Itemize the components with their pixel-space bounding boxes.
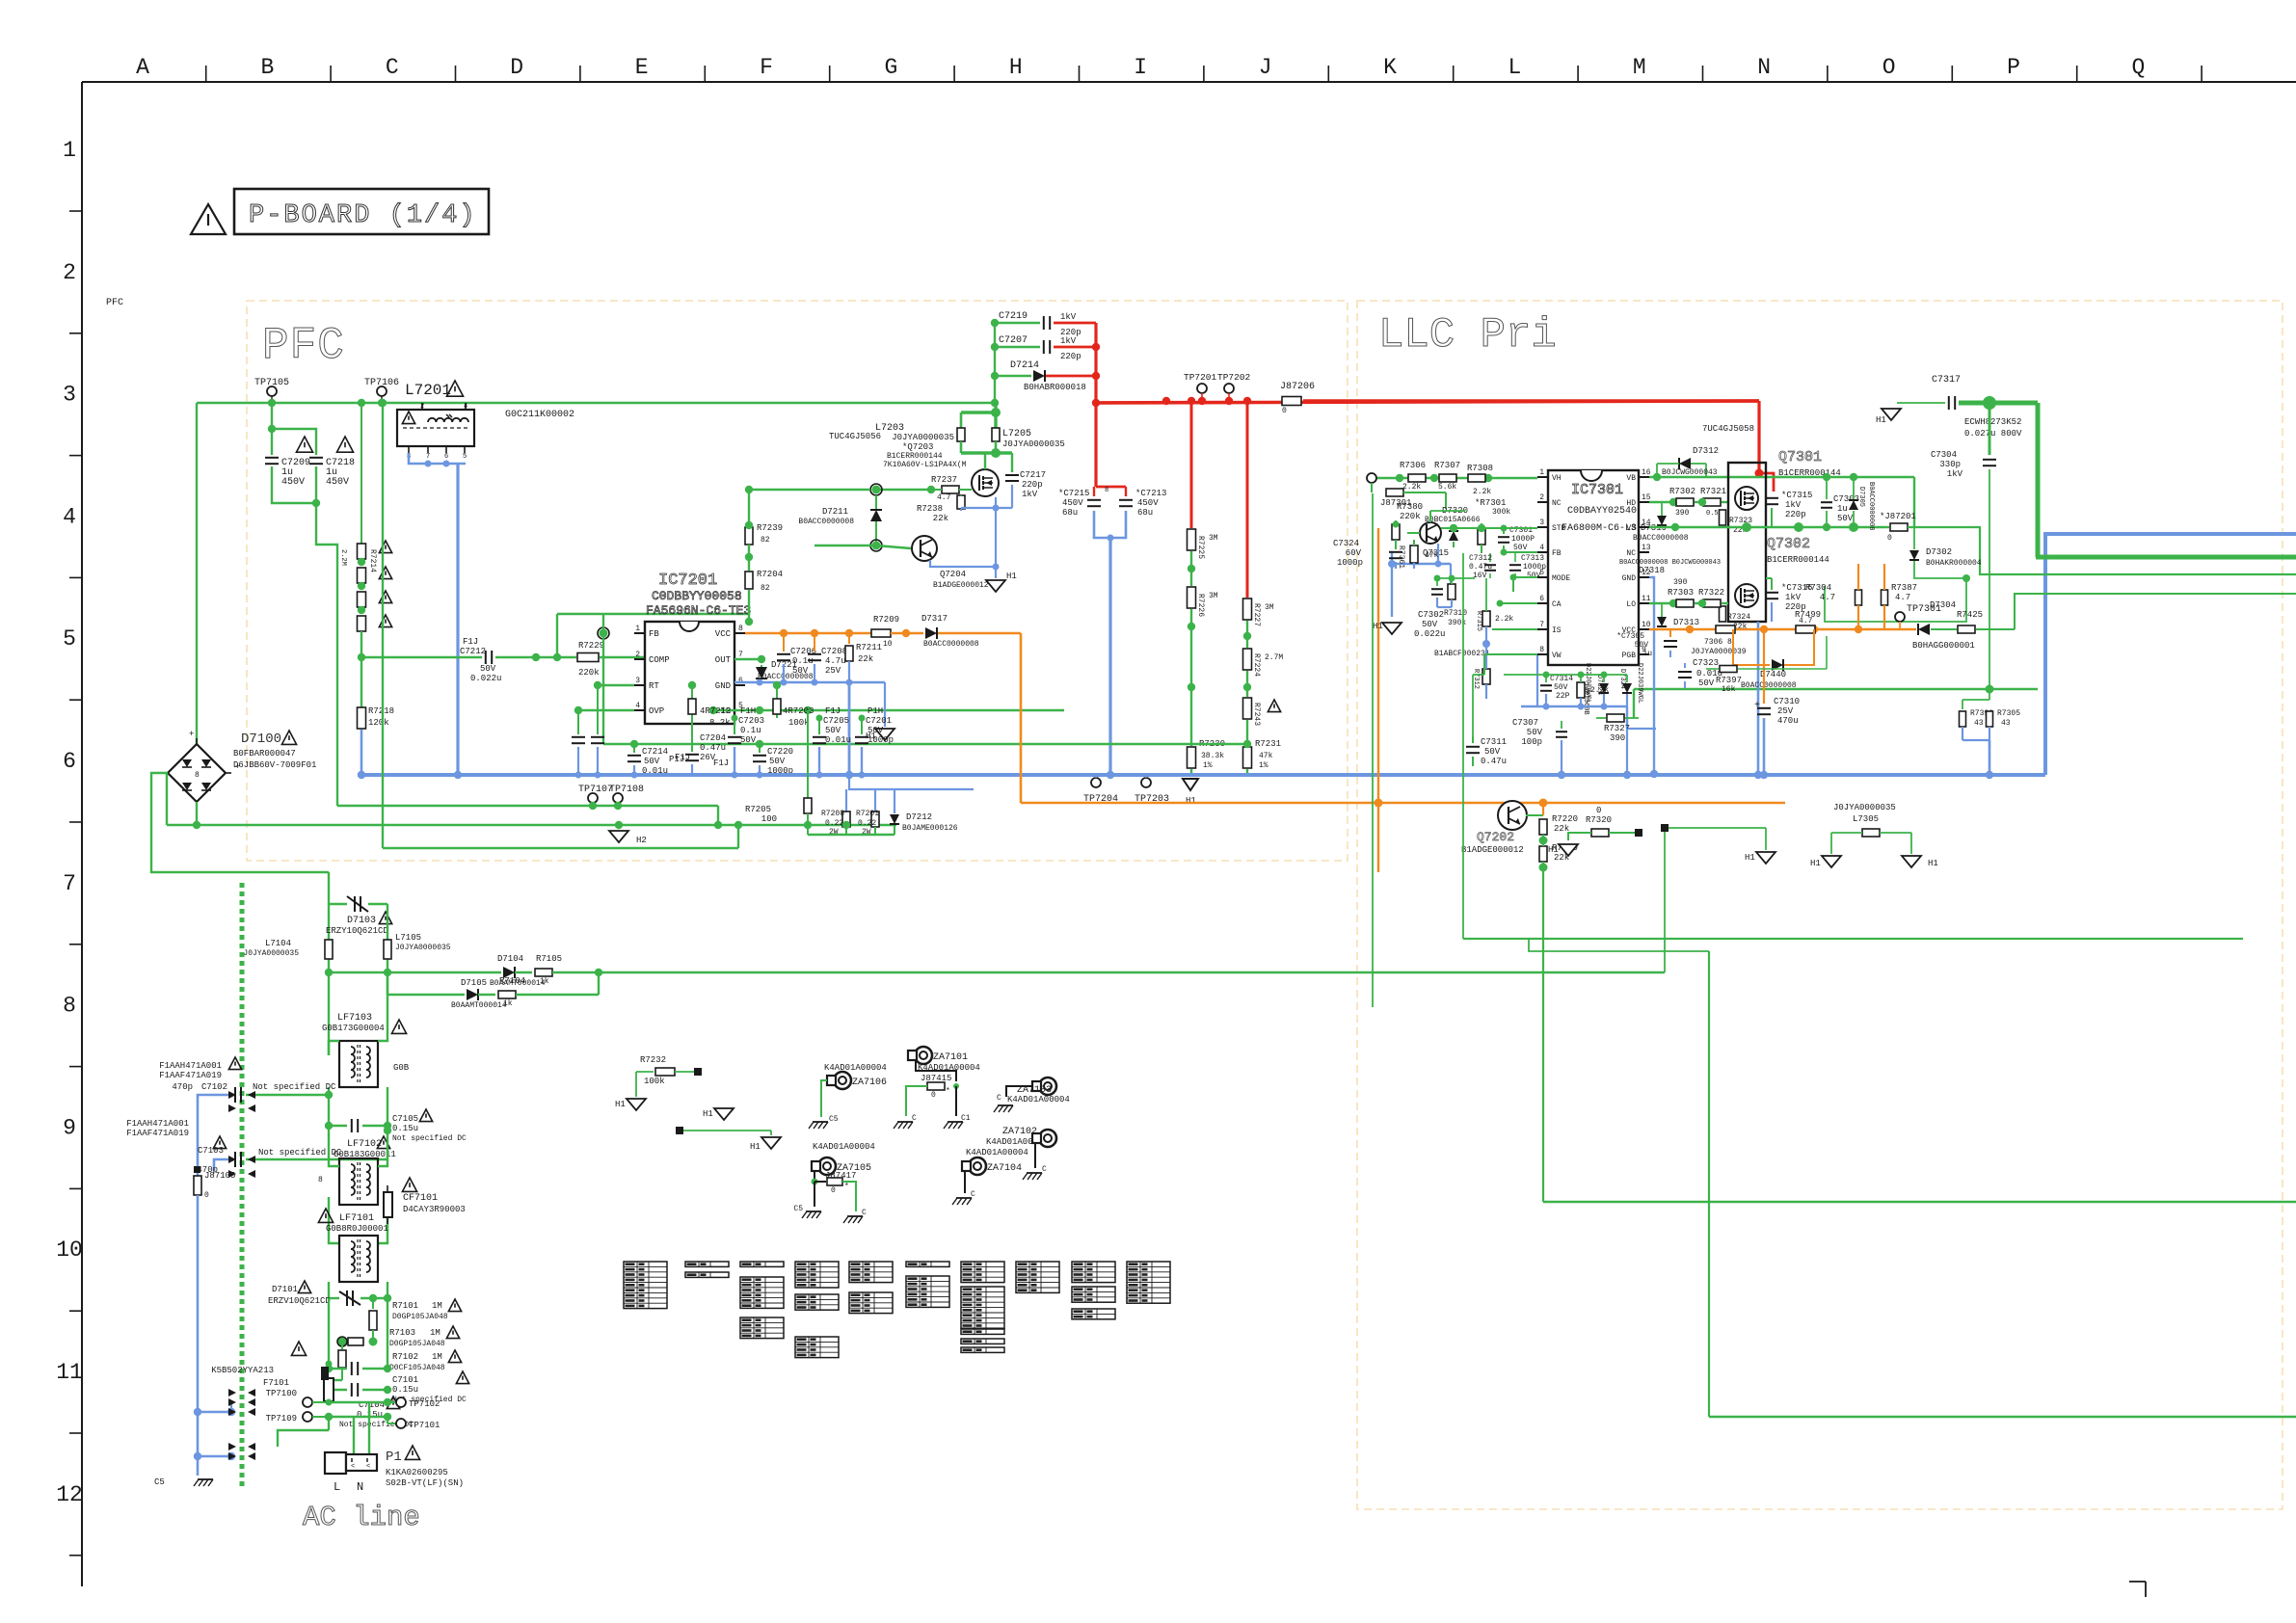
PFC region dashed box <box>247 301 1348 861</box>
svg-text:4: 4 <box>635 702 640 710</box>
svg-text:R7324: R7324 <box>1727 613 1750 622</box>
svg-text:R7227: R7227 <box>1252 603 1261 626</box>
svg-text:D7323: D7323 <box>1595 675 1603 695</box>
svg-text:AC line: AC line <box>303 1502 420 1533</box>
svg-text:N: N <box>1757 55 1771 80</box>
wire <box>329 1041 339 1055</box>
transistor Q7315 <box>1420 522 1441 544</box>
capacitor C7105 <box>329 1125 347 1127</box>
wire <box>808 834 894 836</box>
wire <box>849 775 974 789</box>
capacitor C7324 <box>1389 551 1402 553</box>
svg-text:D: D <box>510 55 523 80</box>
svg-text:D7101: D7101 <box>272 1285 298 1294</box>
svg-text:C5: C5 <box>154 1477 165 1487</box>
resistor R7310 <box>1448 584 1455 599</box>
wire <box>1504 674 1627 676</box>
svg-text:ZA7104: ZA7104 <box>987 1163 1022 1174</box>
ground H1 <box>986 580 1005 592</box>
resistor R7312 <box>1482 669 1490 684</box>
svg-text:C7219: C7219 <box>999 311 1028 322</box>
wire <box>2015 594 2296 629</box>
svg-text:12: 12 <box>56 1482 83 1507</box>
svg-text:0.47u: 0.47u <box>700 743 726 753</box>
svg-text:TUC4GJ5056: TUC4GJ5056 <box>829 432 881 441</box>
diode D7104 <box>503 967 515 978</box>
capacitor C7215 <box>1096 486 1126 489</box>
svg-text:C7314: C7314 <box>1550 675 1573 683</box>
diode D7317 <box>891 632 923 635</box>
svg-text:0.15u: 0.15u <box>392 1124 418 1133</box>
svg-text:J0JYA0000035: J0JYA0000035 <box>892 433 954 442</box>
svg-text:R7322: R7322 <box>1698 588 1724 598</box>
wire <box>1757 401 1760 473</box>
ground H1 <box>1822 856 1841 867</box>
svg-text:MODE: MODE <box>1552 574 1570 583</box>
svg-text:CF7101: CF7101 <box>403 1193 438 1204</box>
svg-text:H1: H1 <box>703 1109 713 1119</box>
svg-text:L7104: L7104 <box>265 939 291 948</box>
resistor R7230 <box>1188 747 1196 768</box>
svg-text:4.7u: 4.7u <box>825 656 846 666</box>
wire <box>876 489 931 491</box>
svg-text:F1H: F1H <box>740 706 756 716</box>
capacitor C7304 <box>1989 403 1991 455</box>
svg-text:B0JCWG000043: B0JCWG000043 <box>1662 468 1718 477</box>
svg-text:0.022u: 0.022u <box>1414 629 1445 639</box>
capacitor C7212 <box>485 651 487 664</box>
svg-text:60V: 60V <box>1346 548 1362 558</box>
wire <box>1054 346 1096 349</box>
svg-text:C: C <box>386 55 399 80</box>
diode D7305 <box>1849 500 1858 510</box>
svg-text:2.2M: 2.2M <box>339 549 347 566</box>
svg-text:NC: NC <box>1552 499 1562 508</box>
svg-text:7: 7 <box>1539 621 1544 629</box>
svg-text:3: 3 <box>63 383 76 408</box>
resistor R7204 <box>748 545 750 571</box>
border frame <box>82 81 2296 83</box>
resistor R7397 <box>1720 666 1737 673</box>
wire <box>1561 750 1562 775</box>
svg-text:0.47u: 0.47u <box>1481 757 1507 766</box>
svg-text:4: 4 <box>464 403 467 411</box>
svg-text:1: 1 <box>1539 468 1544 477</box>
resistor R7225 <box>1190 401 1193 528</box>
svg-text:TP7108: TP7108 <box>609 785 644 795</box>
diode D7320 <box>1449 531 1458 541</box>
svg-text:C7323: C7323 <box>1693 658 1719 668</box>
svg-text:0: 0 <box>1282 407 1287 415</box>
svg-text:F1AAH471A001: F1AAH471A001 <box>159 1061 222 1071</box>
svg-text:C0DBBYY00058: C0DBBYY00058 <box>652 589 742 603</box>
wire <box>1709 1416 2296 1418</box>
resistor R7308 <box>1468 474 1485 482</box>
wire <box>228 1091 236 1099</box>
svg-text:B0HABR000018: B0HABR000018 <box>1024 383 1086 392</box>
wire <box>1513 576 1537 578</box>
svg-text:B0FBAR000047: B0FBAR000047 <box>233 749 296 758</box>
capacitor C7104 <box>329 1389 347 1391</box>
wire <box>748 490 750 525</box>
svg-text:G0C211K00002: G0C211K00002 <box>505 410 574 420</box>
svg-text:D7103: D7103 <box>347 916 376 926</box>
svg-text:390: 390 <box>1610 733 1625 743</box>
op-amp IC7301 <box>1548 470 1639 665</box>
svg-text:R7102: R7102 <box>392 1352 418 1362</box>
svg-text:H1: H1 <box>1876 415 1886 425</box>
capacitor C7206 <box>783 633 785 652</box>
svg-text:R7105: R7105 <box>536 954 562 964</box>
svg-text:D22J039WGL: D22J039WGL <box>1636 663 1643 704</box>
table parts list <box>624 1262 667 1309</box>
svg-text:J0JYA0000035: J0JYA0000035 <box>1002 439 1065 449</box>
wire <box>713 709 1064 711</box>
capacitor C7103 <box>234 1152 236 1167</box>
svg-text:4R7203: 4R7203 <box>783 706 814 716</box>
svg-text:C: C <box>912 1114 917 1123</box>
svg-text:4.7: 4.7 <box>1799 617 1813 625</box>
svg-text:TP7201: TP7201 <box>1184 372 1217 383</box>
svg-text:C: C <box>997 1094 1001 1103</box>
svg-text:*J87201: *J87201 <box>1880 512 1916 521</box>
transformer LF7101 <box>318 1209 333 1222</box>
svg-text:R7201: R7201 <box>856 810 879 818</box>
wire <box>1649 577 1654 774</box>
wire <box>1500 602 1537 604</box>
svg-text:P: P <box>2007 55 2020 80</box>
resistor R7315 <box>1482 611 1490 626</box>
wire <box>1372 493 1374 1007</box>
connector P1 <box>325 1452 346 1474</box>
svg-text:43: 43 <box>2001 719 2011 728</box>
svg-text:R7320: R7320 <box>1586 815 1612 825</box>
svg-text:*C7315: *C7315 <box>1781 491 1812 500</box>
capacitor C7201 <box>861 718 863 734</box>
svg-text:B0HAKR000004: B0HAKR000004 <box>1926 559 1982 568</box>
svg-text:B1ADGE000012: B1ADGE000012 <box>933 581 989 590</box>
svg-text:6: 6 <box>444 453 448 461</box>
svg-text:L7205: L7205 <box>1002 429 1031 439</box>
diode D7105 <box>387 994 465 996</box>
resistor R7104 <box>478 994 495 996</box>
svg-text:6: 6 <box>1539 595 1544 603</box>
svg-text:R7103: R7103 <box>389 1328 415 1338</box>
svg-text:R7104: R7104 <box>499 976 525 986</box>
svg-text:100k: 100k <box>788 718 810 728</box>
svg-text:C7302: C7302 <box>1418 610 1444 620</box>
svg-text:IC7201: IC7201 <box>658 572 717 590</box>
resistor R7224 <box>1243 649 1252 670</box>
svg-text:*C7213: *C7213 <box>1135 489 1166 498</box>
node TP7101 <box>387 1417 388 1423</box>
svg-text:D6JBB60V-7009F01: D6JBB60V-7009F01 <box>233 760 316 770</box>
svg-text:R7101: R7101 <box>392 1301 418 1311</box>
svg-text:2: 2 <box>420 403 424 411</box>
svg-text:K4AD01A00004: K4AD01A00004 <box>813 1142 875 1152</box>
svg-text:C7304: C7304 <box>1931 450 1957 460</box>
wire <box>1429 511 1431 522</box>
svg-text:L7305: L7305 <box>1853 814 1879 824</box>
svg-text:C7312: C7312 <box>1469 554 1492 563</box>
svg-text:50V: 50V <box>644 757 660 766</box>
wire <box>599 971 1665 973</box>
ground H1 <box>714 1108 734 1120</box>
resistor R7387 <box>1882 590 1888 605</box>
svg-text:H1: H1 <box>1186 796 1196 806</box>
resistor R7216 <box>358 592 366 607</box>
node TP7201 <box>1197 384 1207 393</box>
svg-text:G0B: G0B <box>393 1063 410 1073</box>
svg-text:R7307: R7307 <box>1434 461 1460 470</box>
svg-text:OVP: OVP <box>649 706 664 716</box>
svg-text:50V: 50V <box>1837 514 1854 523</box>
svg-text:300k: 300k <box>1492 508 1510 517</box>
svg-text:1kV: 1kV <box>1785 500 1802 510</box>
svg-text:L7201: L7201 <box>405 382 451 399</box>
svg-text:Q7301: Q7301 <box>1778 449 1822 466</box>
svg-text:50V: 50V <box>1422 620 1438 629</box>
svg-text:R7306: R7306 <box>1400 461 1426 470</box>
varistor D7101 <box>329 1297 339 1299</box>
capacitor C7214 <box>633 744 635 753</box>
inductor L7104 <box>325 940 333 959</box>
svg-text:6: 6 <box>738 677 743 685</box>
wire <box>1484 653 1537 655</box>
svg-text:3M: 3M <box>1209 534 1218 543</box>
svg-text:B1ABCF000231: B1ABCF000231 <box>1434 650 1490 658</box>
wire <box>598 684 634 686</box>
svg-text:C1: C1 <box>961 1114 971 1123</box>
wire <box>578 709 634 711</box>
svg-text:LLC Pri: LLC Pri <box>1378 311 1557 359</box>
svg-text:16k: 16k <box>1722 685 1736 694</box>
wire <box>1962 739 1989 741</box>
svg-text:3: 3 <box>635 677 640 685</box>
svg-text:R7304: R7304 <box>1805 583 1831 593</box>
svg-text:LO: LO <box>1626 600 1636 609</box>
resistor R7203 <box>776 685 778 718</box>
resistor R7201 <box>874 789 876 811</box>
svg-text:R7208: R7208 <box>821 810 844 818</box>
wire <box>167 772 168 774</box>
svg-text:J: J <box>1259 55 1272 80</box>
resistor R7102 <box>341 1342 343 1349</box>
svg-text:B0ACC0000008 B0JCWG000043: B0ACC0000008 B0JCWG000043 <box>1619 559 1721 567</box>
svg-text:3M: 3M <box>1209 592 1218 600</box>
svg-text:1k: 1k <box>503 999 513 1008</box>
svg-text:25V: 25V <box>825 666 841 676</box>
svg-text:R7315: R7315 <box>1475 611 1482 631</box>
wire <box>1543 1201 2296 1203</box>
resistor R7323 <box>1720 510 1726 525</box>
capacitor C7205 <box>818 718 820 734</box>
svg-text:470p: 470p <box>197 1165 218 1175</box>
diode D7312 <box>1679 458 1691 469</box>
svg-text:C7214: C7214 <box>642 747 668 757</box>
svg-text:220p: 220p <box>1022 480 1043 490</box>
svg-text:0.027u 800V: 0.027u 800V <box>1964 429 2022 439</box>
svg-text:F7101: F7101 <box>263 1378 289 1388</box>
wire <box>1665 827 1766 829</box>
svg-text:RT: RT <box>649 681 659 691</box>
wire <box>603 743 1247 745</box>
ground H1 <box>770 1131 772 1135</box>
wire <box>1462 553 1464 939</box>
wire <box>1649 602 1673 604</box>
svg-text:50V: 50V <box>740 735 757 745</box>
node TP7108 <box>613 793 623 803</box>
svg-text:P1: P1 <box>386 1450 402 1465</box>
wire <box>1372 477 1537 479</box>
wire <box>1521 705 1627 707</box>
ground H1 <box>1882 409 1901 420</box>
svg-text:50V: 50V <box>868 726 884 735</box>
svg-text:R7214: R7214 <box>368 549 377 572</box>
svg-text:16V: 16V <box>1473 572 1487 580</box>
svg-text:B0ACC0000008: B0ACC0000008 <box>923 640 979 649</box>
svg-text:7: 7 <box>738 651 743 659</box>
node TP7203 <box>1141 778 1151 787</box>
transistor Q7202 <box>1498 801 1527 830</box>
svg-text:470u: 470u <box>1777 716 1799 726</box>
svg-text:COMP: COMP <box>649 655 670 665</box>
svg-text:220k: 220k <box>578 668 600 678</box>
svg-text:C7307: C7307 <box>1512 718 1538 728</box>
capacitor C7317 <box>1897 402 1945 404</box>
resistor R7217 <box>358 616 366 631</box>
diode D7214 <box>995 375 1031 377</box>
resistor R7324 <box>1720 606 1726 622</box>
transistor Q7204 <box>912 536 937 561</box>
node TP7107 <box>588 793 598 803</box>
resistor R7208 <box>845 789 847 811</box>
svg-text:C7311: C7311 <box>1481 737 1507 747</box>
svg-text:450V: 450V <box>281 477 305 488</box>
capacitor C7316 <box>1765 592 1778 594</box>
resistor R7243 <box>1243 698 1252 719</box>
svg-text:G: G <box>884 55 897 80</box>
svg-text:7: 7 <box>426 453 430 461</box>
svg-text:R7239: R7239 <box>757 523 783 533</box>
resistor R7105 <box>515 971 532 973</box>
svg-text:<: < <box>351 1463 355 1471</box>
diode D7319 <box>1657 516 1667 525</box>
svg-text:LF7101: LF7101 <box>339 1213 374 1224</box>
transistor Q7301 <box>1728 463 1766 622</box>
svg-text:50V: 50V <box>1554 683 1568 692</box>
resistor R7381 <box>1410 545 1418 563</box>
wire <box>167 824 896 826</box>
resistor R7232 <box>655 1068 675 1076</box>
svg-text:C7212: C7212 <box>460 647 486 656</box>
capacitor C7102 <box>234 1087 236 1103</box>
svg-text:R7209: R7209 <box>873 615 899 625</box>
svg-text:C7324: C7324 <box>1333 539 1359 548</box>
svg-text:220p: 220p <box>1060 352 1081 361</box>
title box P-BOARD (1/4) <box>234 189 489 234</box>
svg-text:R7238: R7238 <box>917 504 943 514</box>
svg-text:P-BOARD (1/4): P-BOARD (1/4) <box>249 201 477 230</box>
capacitor C7203 <box>734 718 735 734</box>
svg-text:B0JAME000126: B0JAME000126 <box>902 824 958 833</box>
capacitor C7311 <box>1466 746 1480 748</box>
svg-text:A: A <box>136 55 149 80</box>
resistor R7218 <box>360 657 362 707</box>
svg-text:10: 10 <box>56 1237 83 1263</box>
svg-text:FB: FB <box>649 629 659 639</box>
wire <box>240 883 245 1490</box>
svg-text:J0JYA0000035: J0JYA0000035 <box>395 944 451 952</box>
svg-text:5.6k: 5.6k <box>1438 483 1456 492</box>
wire <box>1094 323 1097 487</box>
svg-text:D7214: D7214 <box>1010 360 1039 371</box>
svg-text:R7321: R7321 <box>1700 487 1726 496</box>
svg-text:2: 2 <box>63 260 76 285</box>
svg-text:Not specified DC: Not specified DC <box>253 1082 336 1092</box>
node TP7102 <box>387 1401 395 1403</box>
svg-text:C7101: C7101 <box>392 1375 418 1385</box>
svg-text:GND: GND <box>1622 574 1637 583</box>
svg-text:G0B8R0J00001: G0B8R0J00001 <box>326 1224 388 1234</box>
svg-text:1kV: 1kV <box>1022 490 1038 499</box>
wire <box>745 632 872 635</box>
wire <box>1096 401 1759 403</box>
svg-text:H1: H1 <box>1548 845 1559 855</box>
svg-text:0.22: 0.22 <box>825 819 843 828</box>
capacitor C7101 <box>329 1368 347 1370</box>
svg-text:R7380: R7380 <box>1397 502 1423 512</box>
svg-text:H1: H1 <box>1006 572 1017 581</box>
svg-text:1%: 1% <box>1259 761 1268 770</box>
svg-text:82: 82 <box>761 536 770 545</box>
svg-text:1%: 1% <box>1203 761 1213 770</box>
svg-text:C5: C5 <box>793 1205 803 1213</box>
wire <box>938 632 1021 635</box>
wire <box>198 1095 231 1176</box>
svg-text:LF7103: LF7103 <box>337 1013 372 1024</box>
node TP7301 <box>1895 612 1905 622</box>
resistor R7103 <box>338 1338 347 1346</box>
svg-text:R7361: R7361 <box>1397 545 1405 569</box>
wire <box>600 629 608 638</box>
svg-text:C7217: C7217 <box>1020 470 1046 480</box>
svg-text:1000p: 1000p <box>868 735 894 745</box>
ground C <box>847 1215 863 1217</box>
svg-text:Q7202: Q7202 <box>1477 830 1514 844</box>
svg-text:R7211: R7211 <box>856 643 882 652</box>
svg-text:50V: 50V <box>825 726 841 735</box>
svg-text:R7387: R7387 <box>1891 583 1917 593</box>
svg-text:C: C <box>971 1190 975 1199</box>
ground H1 <box>875 729 894 740</box>
svg-text:*C7305: *C7305 <box>1616 632 1644 641</box>
svg-text:C7310: C7310 <box>1774 697 1800 706</box>
resistor R7226 <box>1190 551 1192 586</box>
connector ZA7101 <box>915 1047 932 1064</box>
svg-text:2: 2 <box>635 651 640 659</box>
ground C1 <box>955 1086 957 1116</box>
svg-text:470p: 470p <box>172 1082 193 1092</box>
wire <box>1529 939 1709 951</box>
svg-text:*C7215: *C7215 <box>1058 489 1089 498</box>
svg-text:R7225: R7225 <box>1196 536 1205 559</box>
wire <box>1757 622 1760 775</box>
svg-text:D7312: D7312 <box>1693 446 1719 456</box>
svg-text:<: < <box>366 1463 370 1471</box>
svg-text:FB: FB <box>1552 549 1562 558</box>
svg-text:82: 82 <box>761 584 770 593</box>
